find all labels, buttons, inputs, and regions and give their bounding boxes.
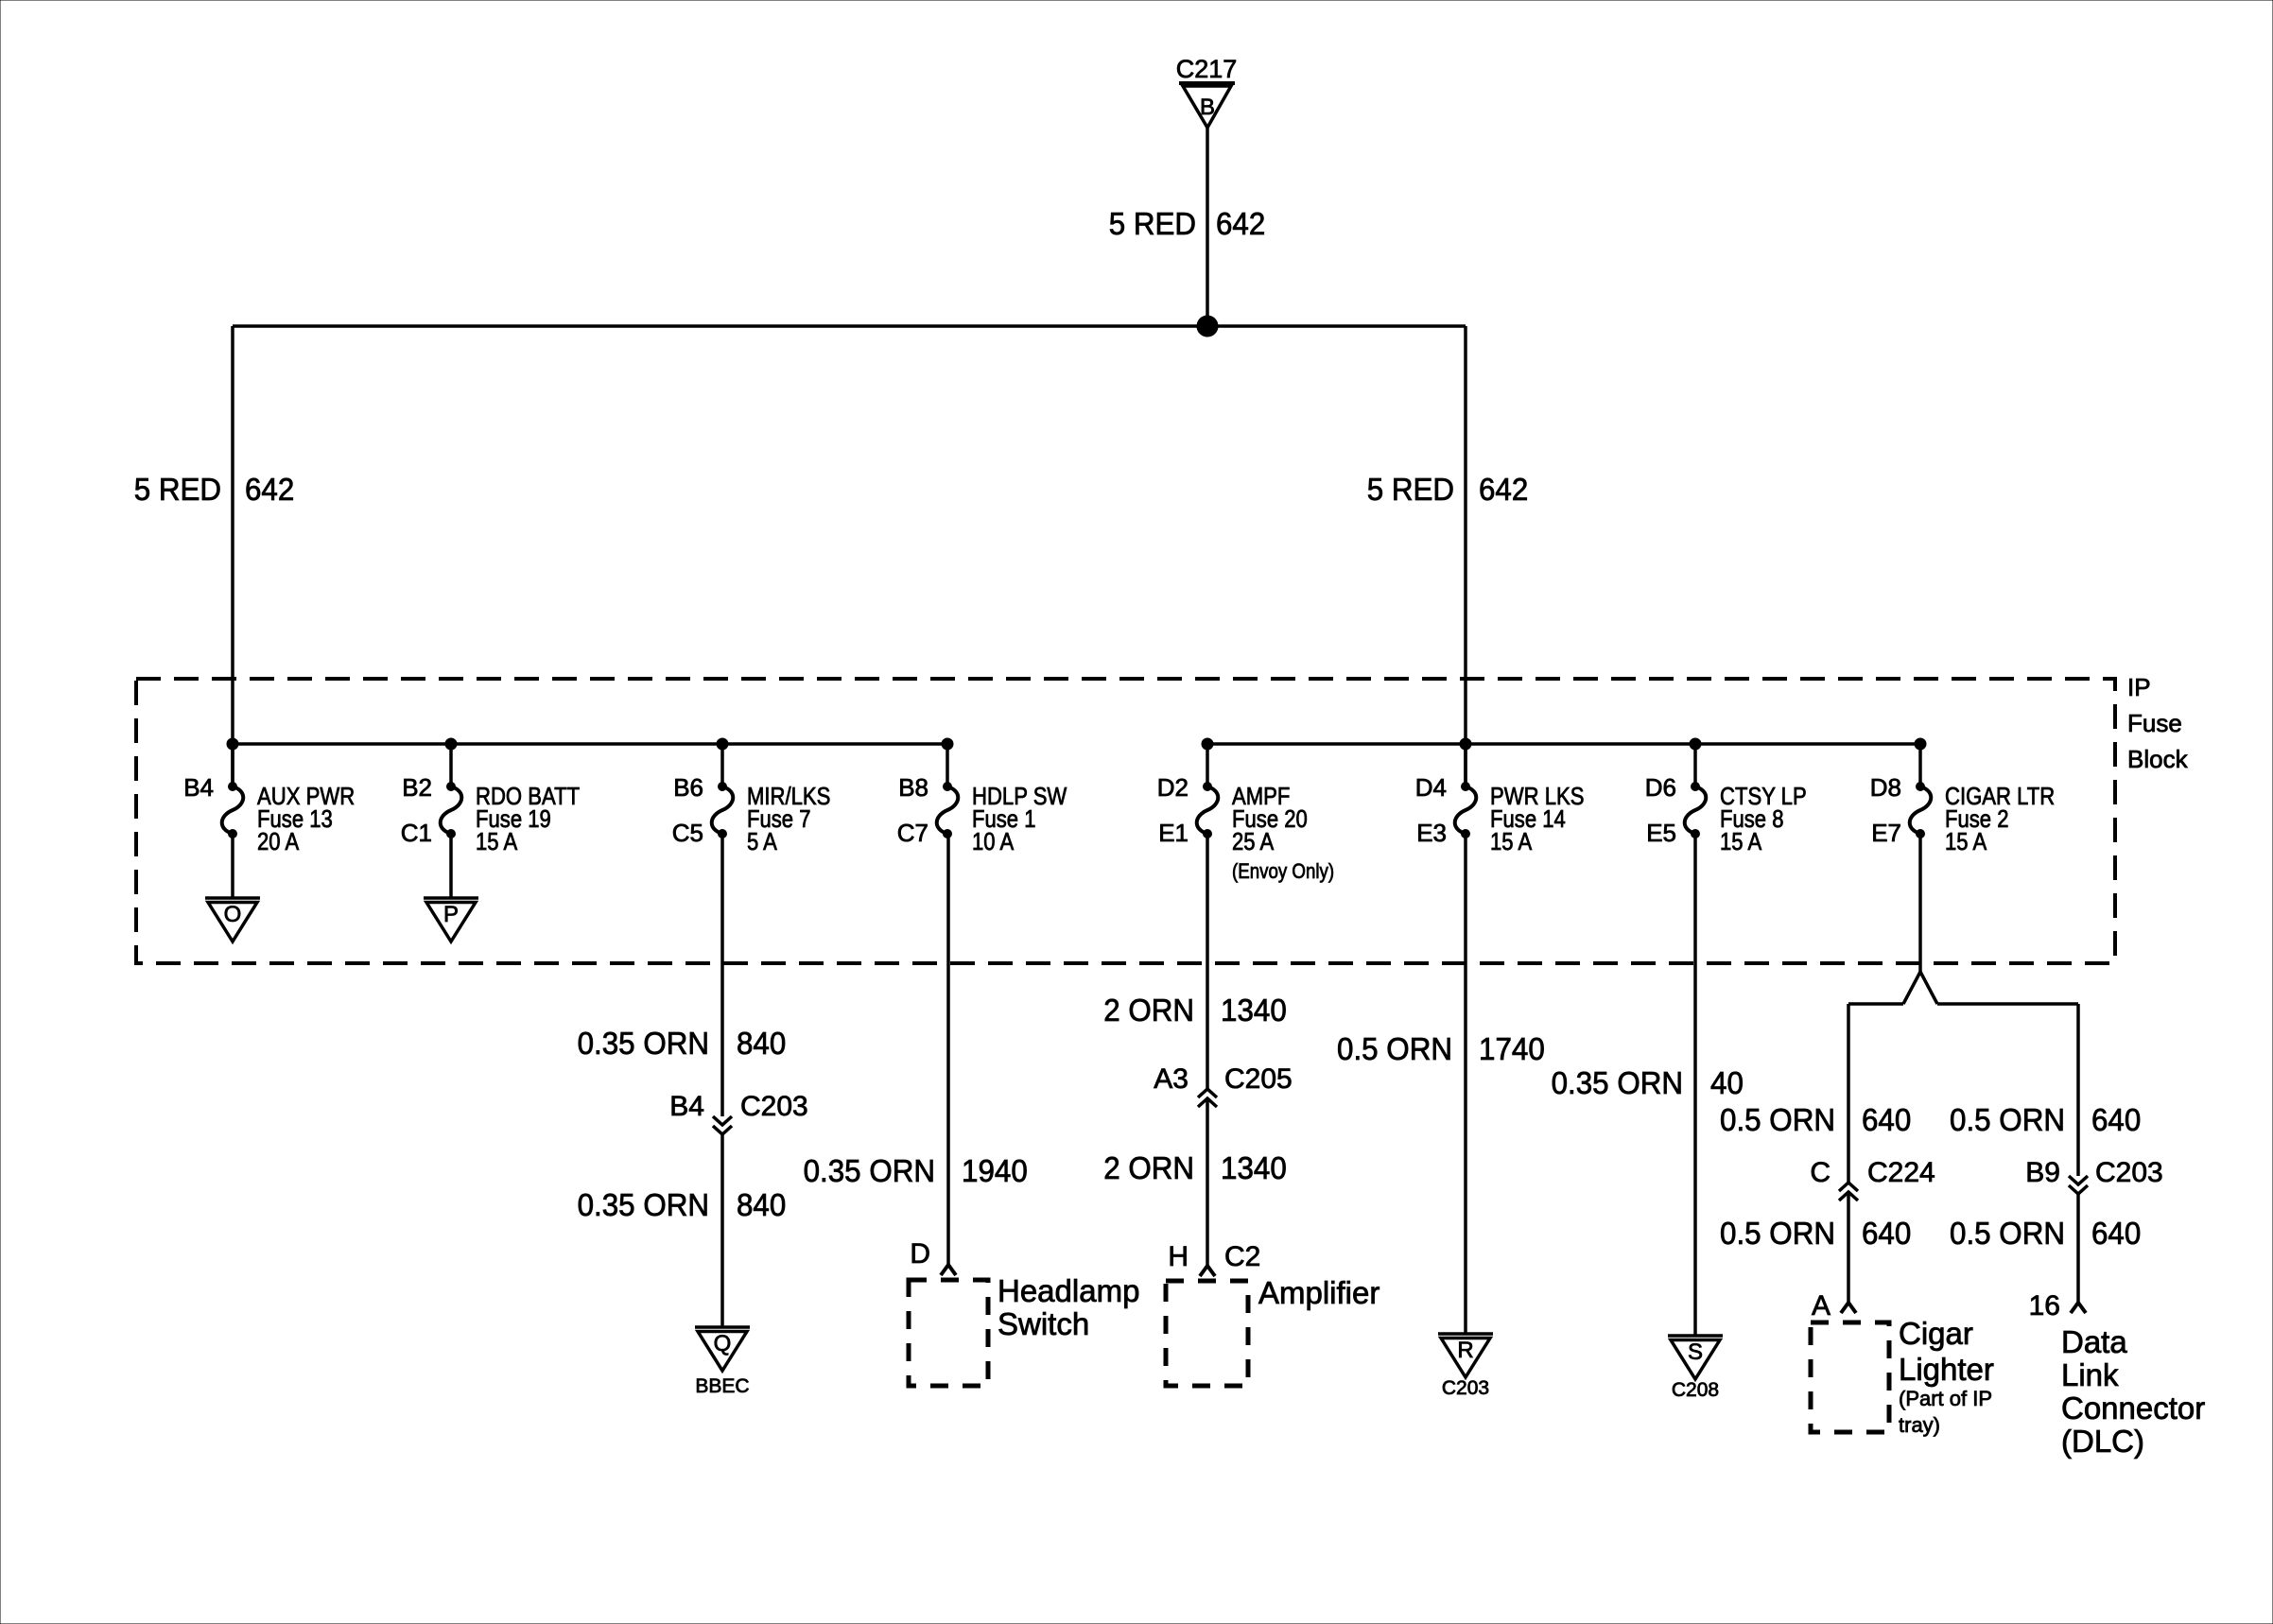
svg-text:D8: D8 — [1870, 773, 1901, 802]
svg-text:D2: D2 — [1157, 773, 1189, 802]
svg-text:C203: C203 — [740, 1091, 808, 1122]
svg-text:Link: Link — [2061, 1357, 2119, 1392]
svg-text:C224: C224 — [1867, 1157, 1935, 1188]
svg-text:(Envoy Only): (Envoy Only) — [1232, 859, 1334, 883]
svg-text:IP: IP — [2127, 673, 2151, 701]
svg-text:2 ORN: 2 ORN — [1103, 993, 1194, 1028]
svg-text:1340: 1340 — [1221, 993, 1287, 1028]
svg-text:0.5 ORN: 0.5 ORN — [1720, 1102, 1835, 1137]
svg-text:R: R — [1457, 1338, 1473, 1363]
svg-text:640: 640 — [2091, 1102, 2141, 1137]
svg-text:840: 840 — [737, 1026, 786, 1061]
svg-text:0.35 ORN: 0.35 ORN — [578, 1026, 709, 1061]
svg-text:16: 16 — [2029, 1290, 2060, 1322]
svg-text:840: 840 — [737, 1187, 786, 1222]
svg-text:1340: 1340 — [1221, 1150, 1287, 1185]
svg-text:5 RED: 5 RED — [1367, 472, 1454, 507]
svg-text:640: 640 — [1862, 1102, 1911, 1137]
svg-text:B: B — [1200, 95, 1215, 120]
svg-text:H: H — [1168, 1241, 1189, 1272]
svg-text:2 ORN: 2 ORN — [1103, 1150, 1194, 1185]
svg-text:B4: B4 — [183, 773, 214, 802]
svg-text:Switch: Switch — [998, 1306, 1089, 1341]
svg-text:B2: B2 — [402, 773, 432, 802]
svg-text:25 A: 25 A — [1232, 827, 1275, 855]
svg-text:640: 640 — [1862, 1216, 1911, 1251]
svg-text:A3: A3 — [1154, 1063, 1189, 1095]
svg-text:(Part of IP: (Part of IP — [1899, 1387, 1992, 1410]
svg-text:C2: C2 — [1224, 1241, 1260, 1272]
svg-text:Fuse: Fuse — [2127, 709, 2182, 737]
svg-text:C203: C203 — [2095, 1157, 2163, 1188]
svg-text:642: 642 — [1216, 206, 1265, 241]
svg-text:S: S — [1688, 1339, 1703, 1365]
svg-text:642: 642 — [245, 472, 294, 507]
svg-text:D6: D6 — [1645, 773, 1676, 802]
svg-text:C1: C1 — [401, 819, 432, 847]
svg-text:B8: B8 — [898, 773, 928, 802]
svg-text:A: A — [1812, 1290, 1831, 1322]
svg-text:642: 642 — [1479, 472, 1528, 507]
svg-text:1940: 1940 — [962, 1153, 1028, 1188]
svg-text:10 A: 10 A — [972, 827, 1015, 855]
svg-text:C7: C7 — [897, 819, 928, 847]
svg-text:D: D — [910, 1238, 930, 1270]
svg-text:P: P — [443, 902, 459, 927]
svg-text:20 A: 20 A — [257, 827, 300, 855]
svg-text:E3: E3 — [1416, 819, 1447, 847]
svg-text:C217: C217 — [1176, 55, 1238, 83]
svg-text:C205: C205 — [1224, 1063, 1293, 1095]
svg-text:5 RED: 5 RED — [1109, 206, 1196, 241]
svg-text:BBEC: BBEC — [695, 1375, 749, 1397]
svg-text:640: 640 — [2091, 1216, 2141, 1251]
svg-text:Lighter: Lighter — [1899, 1352, 1994, 1387]
svg-text:Block: Block — [2127, 745, 2189, 773]
svg-text:(DLC): (DLC) — [2061, 1424, 2144, 1459]
svg-text:Headlamp: Headlamp — [998, 1273, 1139, 1308]
svg-text:Amplifier: Amplifier — [1258, 1275, 1379, 1310]
svg-text:E5: E5 — [1646, 819, 1676, 847]
svg-text:C208: C208 — [1672, 1379, 1719, 1401]
svg-text:15 A: 15 A — [1720, 827, 1762, 855]
svg-text:Data: Data — [2061, 1324, 2127, 1359]
svg-text:0.5 ORN: 0.5 ORN — [1950, 1216, 2065, 1251]
svg-text:E1: E1 — [1158, 819, 1189, 847]
svg-text:0.5 ORN: 0.5 ORN — [1337, 1031, 1452, 1066]
svg-text:5 A: 5 A — [747, 827, 777, 855]
svg-text:B4: B4 — [669, 1091, 704, 1122]
svg-text:40: 40 — [1710, 1065, 1744, 1100]
svg-text:E7: E7 — [1871, 819, 1901, 847]
svg-text:15 A: 15 A — [476, 827, 518, 855]
svg-text:C203: C203 — [1442, 1377, 1489, 1399]
svg-text:B9: B9 — [2025, 1157, 2060, 1188]
svg-text:0.5 ORN: 0.5 ORN — [1950, 1102, 2065, 1137]
svg-text:tray): tray) — [1899, 1413, 1940, 1437]
svg-text:Q: Q — [714, 1331, 732, 1356]
svg-text:B6: B6 — [673, 773, 703, 802]
svg-text:Cigar: Cigar — [1899, 1316, 1973, 1351]
svg-text:1740: 1740 — [1479, 1031, 1545, 1066]
svg-text:0.35 ORN: 0.35 ORN — [578, 1187, 709, 1222]
svg-text:D4: D4 — [1415, 773, 1447, 802]
svg-text:C: C — [1810, 1157, 1831, 1188]
svg-text:0.35 ORN: 0.35 ORN — [804, 1153, 935, 1188]
svg-text:5 RED: 5 RED — [134, 472, 221, 507]
svg-text:0.35 ORN: 0.35 ORN — [1552, 1065, 1683, 1100]
svg-text:15 A: 15 A — [1945, 827, 1987, 855]
svg-text:C5: C5 — [672, 819, 703, 847]
svg-text:Connector: Connector — [2061, 1391, 2205, 1425]
svg-text:0.5 ORN: 0.5 ORN — [1720, 1216, 1835, 1251]
svg-text:O: O — [224, 902, 242, 927]
svg-text:15 A: 15 A — [1490, 827, 1533, 855]
